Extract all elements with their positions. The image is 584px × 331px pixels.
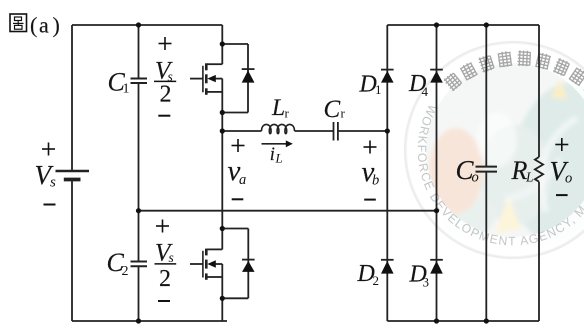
node dot Q2 source — [220, 296, 225, 301]
battery Vs short plate — [64, 178, 81, 182]
svg-text:s: s — [50, 175, 56, 191]
transistor Q2 drain lead — [207, 248, 223, 250]
watermark base disc — [406, 43, 584, 257]
transistor Q2 body lead — [216, 263, 223, 265]
svg-text:L: L — [275, 151, 283, 166]
plus C2 section — [156, 225, 169, 227]
capacitor Co plates — [476, 166, 498, 168]
transistor Q1 channel segments — [205, 63, 208, 95]
svg-text:a: a — [39, 12, 49, 37]
transistor Q2 gate bar — [202, 251, 204, 278]
plus Vo — [555, 144, 568, 146]
svg-text:3: 3 — [423, 275, 430, 290]
wire Q1 source vertical — [221, 79, 223, 131]
transistor Q1 gate bar — [202, 66, 204, 93]
diode D2 cathode bar — [381, 259, 394, 261]
transistor Q1 drain lead — [207, 63, 223, 65]
diode D1 cathode bar — [381, 69, 394, 71]
svg-text:): ) — [53, 12, 60, 37]
node dot Q1 drain — [220, 41, 225, 46]
diode Q1 body diode triangle — [242, 70, 255, 82]
wire RL branch lower — [538, 182, 540, 321]
svg-text:2: 2 — [373, 273, 380, 288]
capacitor C2 plates — [131, 261, 148, 263]
watermark english arc text — [418, 104, 584, 245]
inductor Lr — [262, 124, 295, 133]
watermark teal low left — [444, 195, 496, 235]
minus va — [232, 198, 244, 200]
minus C2 section — [158, 300, 170, 302]
diode Q1 body diode branch — [247, 44, 249, 113]
diode Q1 body diode cathode bar — [242, 68, 255, 70]
wire bridge leg1 — [386, 25, 388, 321]
wire mosfet branch top drop — [221, 25, 223, 64]
svg-text:r: r — [341, 106, 346, 121]
svg-text:2: 2 — [160, 81, 172, 107]
node dot bottom rail Co — [484, 318, 489, 323]
node dot top C branch — [136, 22, 141, 27]
diode D3 cathode bar — [430, 259, 443, 261]
plus Vs battery — [42, 148, 55, 150]
svg-text:s: s — [169, 250, 174, 265]
wire va node vertical — [221, 131, 223, 229]
wire left rail upper (to battery) — [71, 25, 73, 171]
plus C1 section — [159, 43, 172, 45]
svg-text:C: C — [324, 96, 341, 123]
svg-text:R: R — [511, 156, 528, 185]
diode Q2 body diode branch — [247, 229, 249, 299]
capacitor Cr plates — [333, 122, 335, 141]
transistor Q1 body lead — [216, 78, 223, 80]
svg-text:2: 2 — [159, 266, 171, 292]
minus Vo — [556, 194, 568, 196]
transistor Q1 gate stub — [190, 78, 203, 80]
svg-text:1: 1 — [375, 82, 382, 97]
watermark white annulus text band — [417, 54, 584, 247]
transistor Q2 source lead — [207, 276, 223, 278]
svg-text:(: ( — [30, 12, 37, 37]
minus C1 section — [158, 115, 170, 117]
wire C branch upper — [138, 25, 140, 78]
watermark yellow streak top-right — [551, 80, 568, 99]
transistor Q1 source lead — [207, 91, 223, 93]
transistor Q2 channel segments — [205, 249, 208, 280]
wire mid rail — [139, 210, 437, 212]
svg-text:L: L — [525, 170, 534, 185]
wire inductor to Cr — [295, 130, 334, 132]
battery Vs long plate — [56, 170, 90, 173]
wire Co branch lower — [485, 172, 487, 321]
watermark teal mid — [479, 125, 551, 225]
watermark chinese arc text — [443, 50, 584, 98]
svg-text:1: 1 — [123, 82, 130, 97]
node dot vb — [385, 128, 390, 133]
wire Q1 drain to diode — [222, 43, 248, 45]
wire bottom rail left — [72, 320, 227, 322]
wire va to inductor — [222, 130, 261, 132]
watermark white swirl lower — [505, 158, 560, 200]
minus vb — [364, 199, 376, 201]
watermark white swirl center — [477, 113, 517, 167]
node dot va — [220, 128, 225, 133]
watermark faint outer ring — [405, 42, 584, 258]
resistor RL zigzag — [535, 157, 543, 182]
wire Cr to vb node — [338, 130, 387, 132]
svg-text:i: i — [270, 145, 275, 165]
wire Co branch upper — [485, 25, 487, 167]
wire Q2 source to bottom rail — [221, 298, 223, 321]
diode D1 triangle — [381, 71, 394, 83]
diode D3 triangle — [430, 261, 443, 274]
capacitor C1 plates — [131, 78, 148, 80]
svg-text:L: L — [271, 95, 285, 121]
node dot top rail leg2 — [434, 22, 439, 27]
svg-text:a: a — [239, 172, 246, 188]
plus vb — [364, 146, 377, 148]
watermark white swirl in right lobe — [541, 118, 577, 212]
transistor Q2 body arrow — [207, 260, 216, 267]
transistor Q2 gate stub — [190, 263, 203, 265]
wire mosfet branch lower drop — [221, 229, 223, 250]
diode D2 triangle — [381, 261, 394, 274]
wire RL branch upper — [538, 25, 540, 157]
svg-text:r: r — [285, 106, 290, 121]
node dot top rail Co — [484, 22, 489, 27]
diode D4 triangle — [430, 71, 443, 83]
watermark peach blob — [429, 128, 483, 214]
wire Q2 source vertical — [221, 264, 223, 298]
wire Q1 source to diode — [222, 112, 248, 114]
transistor Q1 body arrow — [207, 75, 216, 82]
watermark yellow wedge — [495, 196, 521, 233]
node dot bottom C branch — [136, 318, 141, 323]
label figure title 圖 (hand drawn) — [10, 14, 27, 32]
diode D4 cathode bar — [430, 69, 443, 71]
svg-text:4: 4 — [422, 84, 429, 99]
diode Q2 body diode triangle — [242, 261, 255, 272]
wire bridge leg2 — [436, 25, 438, 321]
wire top rail left — [72, 24, 222, 26]
wire bottom rail right — [387, 320, 539, 322]
wire left rail lower (from battery) — [71, 180, 73, 322]
node dot Q1 source — [220, 110, 225, 115]
node dot bottom rail leg2 — [434, 318, 439, 323]
wire top rail right — [387, 24, 539, 26]
diode Q2 body diode cathode bar — [242, 259, 255, 261]
node dot mid rail left — [136, 208, 141, 213]
watermark teal lobe right — [499, 75, 584, 250]
svg-text:o: o — [565, 171, 572, 187]
wire Q2 source to diode — [222, 297, 248, 299]
wire Q2 drain to diode — [222, 228, 248, 230]
wire C branch lower — [138, 266, 140, 321]
node dot mid rail right — [434, 208, 439, 213]
svg-text:2: 2 — [122, 264, 129, 279]
plus va — [232, 145, 245, 147]
node dot Q2 drain — [220, 226, 225, 231]
arrow iL — [262, 143, 287, 145]
svg-text:b: b — [372, 173, 379, 189]
wire C branch middle — [138, 83, 140, 262]
svg-text:o: o — [472, 170, 479, 186]
minus Vs battery — [44, 204, 56, 206]
